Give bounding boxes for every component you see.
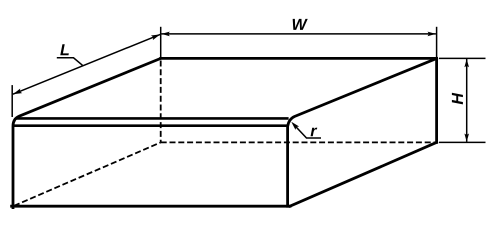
- box back right vertical edge F-G: [435, 58, 438, 142]
- W arrowhead left: [161, 32, 169, 37]
- L dimension line: [13, 34, 160, 94]
- box top right diagonal edge F-B with rounded corner r into front right edge: [288, 58, 437, 206]
- hidden edge D-K (diagonal dashed): [14, 142, 161, 205]
- box top back edge E-F: [161, 57, 437, 60]
- hidden edge E-K (vertical dashed): [160, 61, 162, 143]
- box bottom right diagonal edge C-G: [290, 142, 437, 206]
- W arrowhead right: [428, 32, 436, 37]
- L extension line left (x=12.2): [11, 85, 13, 117]
- r label: [311, 128, 318, 137]
- r arrowhead: [291, 122, 299, 130]
- fillet tangent line on front face: [13, 124, 287, 127]
- H label (rotated): [452, 93, 463, 105]
- W label: [293, 19, 308, 30]
- box left vertical edge and top-left L edge (rounded corner): [13, 58, 161, 207]
- L arrowhead upper-right: [151, 34, 160, 40]
- H arrowhead top: [464, 59, 469, 67]
- H extension line bottom (y=142.4): [439, 141, 486, 143]
- H arrowhead bottom: [464, 134, 469, 142]
- box front top edge A-B: [16, 117, 289, 120]
- L arrowhead lower-left: [13, 89, 22, 95]
- hidden edge K-G (horizontal dashed): [161, 141, 437, 143]
- H dimension line: [466, 59, 468, 142]
- r leader line with arrow: [293, 124, 321, 138]
- W dimension line: [161, 33, 436, 35]
- L leader line: [57, 58, 83, 66]
- L label: [60, 44, 69, 55]
- W extension line right (x=436.6): [436, 27, 438, 58]
- box bottom front edge D-C: [12, 205, 290, 208]
- H extension line top (y=58.4): [439, 57, 486, 59]
- W extension line left (x=160.7): [160, 27, 162, 58]
